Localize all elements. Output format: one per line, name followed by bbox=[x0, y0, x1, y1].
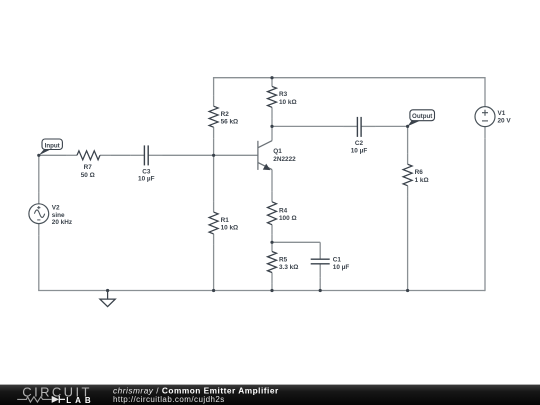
footer title text bbox=[113, 386, 279, 404]
lead R7 left bbox=[67, 154, 77, 156]
capacitor C1 bbox=[311, 259, 330, 264]
lead V2 top bbox=[38, 192, 40, 204]
lead V1 top bbox=[484, 95, 486, 107]
svg-text:50 Ω: 50 Ω bbox=[81, 172, 95, 179]
transistor Q1 bbox=[258, 141, 272, 170]
wire collector node to C2 bbox=[272, 125, 343, 127]
CircuitLab logo bbox=[17, 384, 94, 405]
lead C3 right bbox=[148, 154, 162, 156]
wire bottom rail bbox=[38, 290, 485, 292]
capacitor C2 bbox=[357, 117, 361, 137]
svg-text:Input: Input bbox=[45, 142, 60, 149]
wire node A to C1 branch bbox=[272, 241, 320, 243]
svg-text:Q1: Q1 bbox=[273, 148, 282, 155]
lead C2 left bbox=[343, 125, 357, 127]
svg-text:R5: R5 bbox=[279, 256, 288, 263]
wire input node down to V2 bbox=[38, 155, 40, 192]
node emitter-R5 junction dot bbox=[270, 241, 273, 244]
wire input node to R7 bbox=[39, 154, 67, 156]
wire C2 to output node bbox=[375, 125, 407, 127]
svg-text:R4: R4 bbox=[279, 207, 288, 214]
wire R6 to bottom rail bbox=[407, 197, 409, 291]
wire R2 to base node bbox=[213, 138, 215, 155]
wire top rail bbox=[213, 77, 486, 95]
wire emitter to R4 bbox=[271, 180, 273, 192]
node R6 bottom junction dot bbox=[406, 289, 409, 292]
svg-text:56 kΩ: 56 kΩ bbox=[221, 119, 239, 126]
lead R1 bottom bbox=[213, 234, 215, 245]
node output junction dot bbox=[406, 125, 409, 128]
svg-text:100 Ω: 100 Ω bbox=[279, 215, 297, 222]
lead R6 top bbox=[407, 153, 409, 164]
lead R5 top bbox=[271, 242, 273, 251]
node base junction dot bbox=[212, 154, 215, 157]
svg-text:R6: R6 bbox=[415, 169, 424, 176]
lead R6 bottom bbox=[407, 186, 409, 197]
wire V1 bottom to bottom rail bbox=[484, 138, 486, 291]
node C1 bottom junction dot bbox=[319, 289, 322, 292]
svg-text:2N2222: 2N2222 bbox=[273, 156, 296, 163]
lead C2 right bbox=[361, 125, 375, 127]
svg-text:3.3 kΩ: 3.3 kΩ bbox=[279, 264, 298, 271]
svg-text:V2: V2 bbox=[52, 204, 60, 211]
svg-text:LAB: LAB bbox=[66, 396, 94, 405]
svg-text:10 kΩ: 10 kΩ bbox=[279, 99, 297, 106]
lead V2 bottom bbox=[38, 224, 40, 236]
lead V1 bottom bbox=[484, 127, 486, 139]
svg-text:R7: R7 bbox=[84, 164, 93, 171]
node collector junction dot bbox=[270, 125, 273, 128]
lead R4 top bbox=[271, 192, 273, 202]
resistor R2 bbox=[209, 106, 218, 127]
resistor R5 bbox=[268, 252, 277, 273]
lead Q1 collector bbox=[271, 126, 273, 140]
lead R2 top bbox=[213, 95, 215, 106]
svg-text:V1: V1 bbox=[498, 110, 506, 117]
wire C3 to Q1 base bbox=[163, 154, 258, 156]
lead C1 top bbox=[319, 242, 321, 259]
wire C1 to bottom rail bbox=[319, 278, 321, 291]
resistor R1 bbox=[209, 212, 218, 234]
svg-text:10 kΩ: 10 kΩ bbox=[221, 225, 239, 232]
resistor R7 bbox=[77, 151, 100, 160]
node R1 bottom junction dot bbox=[212, 289, 215, 292]
node Input flag bbox=[39, 139, 63, 155]
svg-text:R3: R3 bbox=[279, 91, 288, 98]
lead R2 bottom bbox=[213, 127, 215, 138]
lead R5 bottom bbox=[271, 273, 273, 284]
svg-text:20 V: 20 V bbox=[498, 118, 512, 125]
capacitor C3 bbox=[144, 145, 148, 165]
lead R3 top bbox=[271, 78, 273, 87]
lead C1 bottom bbox=[319, 264, 321, 278]
node R3 top junction dot bbox=[270, 76, 273, 79]
node input junction dot bbox=[37, 154, 40, 157]
wire R7 to C3 bbox=[110, 154, 130, 156]
lead Q1 emitter bbox=[271, 170, 273, 180]
wire R4 to node A bbox=[271, 235, 273, 242]
node R5 bottom junction dot bbox=[270, 289, 273, 292]
wire R3 to collector node bbox=[271, 118, 273, 126]
wire V2 bottom to bottom rail bbox=[38, 235, 40, 290]
svg-text:http://circuitlab.com/cujdh2s: http://circuitlab.com/cujdh2s bbox=[113, 395, 225, 404]
svg-text:20 kHz: 20 kHz bbox=[52, 219, 72, 226]
lead R7 right bbox=[100, 154, 110, 156]
ground bbox=[100, 291, 115, 307]
wire R1 to bottom rail bbox=[213, 245, 215, 291]
lead R4 bottom bbox=[271, 225, 273, 235]
svg-text:C1: C1 bbox=[333, 257, 342, 264]
svg-text:10 µF: 10 µF bbox=[138, 176, 155, 183]
svg-text:10 µF: 10 µF bbox=[351, 147, 368, 154]
resistor R4 bbox=[268, 202, 277, 225]
svg-text:R1: R1 bbox=[221, 217, 230, 224]
svg-text:C3: C3 bbox=[142, 168, 151, 175]
resistor R6 bbox=[403, 164, 412, 186]
wire top rail to R2 bbox=[213, 78, 215, 95]
resistor R3 bbox=[268, 86, 277, 107]
wire R5 to bottom rail bbox=[271, 284, 273, 291]
node Output flag bbox=[408, 110, 435, 127]
wire output node to R6 bbox=[407, 126, 409, 153]
lead R3 bottom bbox=[271, 107, 273, 118]
node ground junction dot bbox=[106, 289, 109, 292]
voltage source V2 bbox=[29, 204, 49, 224]
voltage source V1 bbox=[475, 107, 495, 127]
svg-text:10 µF: 10 µF bbox=[333, 264, 350, 271]
svg-text:C2: C2 bbox=[355, 140, 364, 147]
wire base node to R1 bbox=[213, 155, 215, 201]
svg-text:sine: sine bbox=[52, 212, 65, 219]
lead C3 left bbox=[130, 154, 144, 156]
svg-text:Output: Output bbox=[412, 113, 432, 120]
lead R1 top bbox=[213, 201, 215, 212]
svg-text:1 kΩ: 1 kΩ bbox=[415, 177, 429, 184]
svg-text:R2: R2 bbox=[221, 111, 230, 118]
